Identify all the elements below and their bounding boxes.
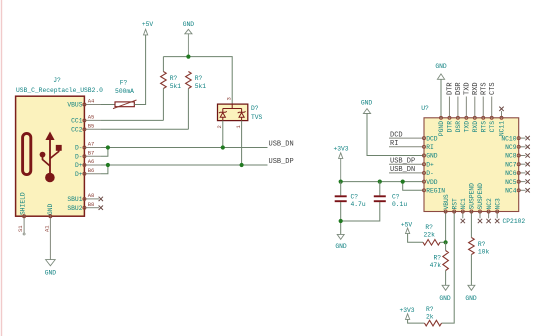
- svg-text:4.7u: 4.7u: [351, 201, 366, 208]
- capacitor C? 4.7u: [340, 182, 342, 196]
- svg-text:S1: S1: [17, 225, 24, 232]
- svg-text:U?: U?: [421, 105, 429, 112]
- pin NC9 (right): [519, 146, 526, 148]
- svg-text:+5V: +5V: [401, 221, 413, 228]
- pin A4 VBUS: [84, 104, 101, 106]
- pin B5 CC2: [84, 128, 101, 130]
- junction D+ B6: [106, 163, 110, 167]
- svg-text:GND: GND: [426, 153, 438, 160]
- svg-text:SBU2: SBU2: [67, 205, 82, 212]
- svg-text:D-: D-: [426, 170, 434, 177]
- svg-text:NC8: NC8: [505, 153, 517, 160]
- svg-text:R?: R?: [425, 224, 433, 231]
- power symbol GND (above U?): [437, 74, 444, 79]
- svg-text:GND: GND: [47, 203, 54, 215]
- svg-text:NC10: NC10: [501, 135, 516, 142]
- resistor R? 47k: [445, 242, 447, 250]
- power symbol +5V (bottom): [406, 228, 410, 234]
- svg-text:10k: 10k: [478, 249, 490, 256]
- power symbol +3V3 (bottom): [406, 314, 410, 320]
- svg-text:A5: A5: [88, 114, 95, 121]
- USB-C plug icon: [23, 133, 31, 174]
- svg-text:SUSPEND: SUSPEND: [477, 183, 484, 210]
- junction VDD +3V3/C1: [339, 180, 343, 184]
- junction caps GND: [339, 219, 343, 223]
- pin B8 SBU2: [84, 207, 99, 209]
- pin NC8 (right): [519, 155, 526, 157]
- pin D+ (left): [389, 163, 424, 165]
- svg-text:VBUS: VBUS: [67, 102, 82, 109]
- svg-text:CTS: CTS: [489, 82, 497, 95]
- svg-text:R?: R?: [478, 241, 486, 248]
- wire D- net: [101, 147, 268, 149]
- svg-text:DSR: DSR: [455, 82, 463, 95]
- svg-text:RI: RI: [390, 140, 398, 148]
- svg-text:R?: R?: [426, 306, 434, 313]
- capacitor C? 0.1u: [379, 182, 381, 196]
- ground symbol under connector: [46, 260, 56, 266]
- wire CC2: [101, 128, 188, 130]
- wire VDD rail: [341, 181, 424, 183]
- svg-text:NC5: NC5: [505, 179, 517, 186]
- svg-text:SUSPEND: SUSPEND: [469, 183, 476, 210]
- svg-text:R?: R?: [195, 75, 203, 82]
- svg-text:5k1: 5k1: [195, 83, 207, 90]
- pin NC1 (bottom): [462, 212, 464, 219]
- wire RST down: [442, 212, 455, 324]
- svg-text:GND: GND: [435, 63, 447, 70]
- resistor R? 5k1 (CC1): [162, 57, 164, 72]
- svg-text:C?: C?: [392, 194, 400, 201]
- pin B6 D+: [84, 173, 101, 175]
- svg-text:DCD: DCD: [390, 131, 403, 139]
- svg-text:GND: GND: [361, 100, 373, 107]
- svg-text:SHIELD: SHIELD: [20, 192, 27, 215]
- svg-text:B5: B5: [88, 123, 95, 130]
- USB trident icon: [40, 132, 62, 183]
- pin A5 CC1: [84, 119, 101, 121]
- wire B7 join: [101, 148, 108, 157]
- junction VDD REGIN: [401, 180, 405, 184]
- svg-text:TXD: TXD: [464, 82, 472, 95]
- pin CTS (top): [491, 97, 493, 118]
- svg-text:A8: A8: [88, 192, 95, 199]
- svg-text:REGIN: REGIN: [426, 188, 445, 195]
- junction D- TVS: [221, 145, 225, 149]
- wire GND to PGND pin: [440, 79, 442, 118]
- junction D+ TVS: [240, 163, 244, 167]
- svg-text:NC4: NC4: [505, 188, 517, 195]
- ground symbol under 47k: [442, 285, 449, 290]
- svg-text:R?: R?: [170, 75, 178, 82]
- svg-text:CC1: CC1: [71, 118, 83, 125]
- pin A7 D-: [84, 147, 101, 149]
- wire SUSPEND down: [470, 212, 472, 238]
- pin DTR (top): [448, 97, 450, 118]
- no-connect X NC11: [499, 107, 503, 111]
- svg-text:VDD: VDD: [426, 179, 438, 186]
- pin NC11 (top): [501, 111, 503, 118]
- no-connect X on SBU1: [99, 197, 103, 201]
- wire GND pin (left): [367, 114, 424, 156]
- svg-text:D-: D-: [75, 145, 83, 152]
- svg-text:RST: RST: [451, 198, 458, 210]
- svg-text:USB_DN: USB_DN: [269, 141, 294, 149]
- power symbol GND (top rail): [185, 29, 192, 34]
- pin B7 D-: [84, 155, 101, 157]
- svg-text:D+: D+: [426, 161, 434, 168]
- pin RTS (top): [482, 97, 484, 118]
- svg-text:J?: J?: [53, 77, 61, 84]
- pin DSR (top): [457, 97, 459, 118]
- svg-text:VBUS: VBUS: [443, 194, 450, 209]
- svg-text:NC7: NC7: [505, 161, 517, 168]
- svg-text:RXD: RXD: [472, 82, 480, 95]
- svg-text:D+: D+: [75, 162, 83, 169]
- pin RXD (top): [474, 97, 476, 118]
- svg-text:+3V3: +3V3: [399, 307, 414, 314]
- pin D- (left): [389, 172, 424, 174]
- svg-text:TVS: TVS: [251, 114, 263, 121]
- pin NC5 (right): [519, 181, 526, 183]
- svg-text:D-: D-: [75, 153, 83, 160]
- svg-text:DTR: DTR: [447, 121, 454, 133]
- svg-text:RI: RI: [426, 144, 434, 151]
- svg-text:DTR: DTR: [447, 82, 455, 95]
- svg-text:TXD: TXD: [464, 121, 471, 133]
- svg-text:RTS: RTS: [480, 121, 487, 133]
- svg-text:CP2102: CP2102: [503, 218, 526, 225]
- svg-text:A7: A7: [88, 141, 95, 148]
- svg-text:R?: R?: [433, 255, 441, 262]
- junction D- B7: [106, 145, 110, 149]
- svg-text:+5V: +5V: [142, 21, 154, 28]
- junction GND rail: [186, 55, 190, 59]
- svg-text:F?: F?: [120, 80, 128, 87]
- svg-text:A4: A4: [88, 98, 95, 105]
- pin NC6 (right): [519, 172, 526, 174]
- wire +5V to R 22k: [408, 234, 423, 243]
- pin A8 SBU1: [84, 198, 99, 200]
- svg-text:NC11: NC11: [499, 121, 506, 136]
- pin NC2 (bottom): [488, 212, 490, 219]
- svg-text:USB_DP: USB_DP: [390, 157, 415, 165]
- pin A1 GND stub + wire: [49, 216, 51, 259]
- wire fuse to +5V: [134, 35, 145, 105]
- svg-text:NC2: NC2: [486, 198, 493, 210]
- svg-text:GND: GND: [465, 295, 477, 302]
- power symbol GND (left of U?): [363, 109, 370, 114]
- wire VBUS pin to fuse: [101, 104, 115, 106]
- resistor R? 10k: [469, 238, 475, 255]
- ground symbol under caps: [337, 234, 344, 239]
- no-connect X on SBU2: [99, 206, 103, 210]
- pin TXD (top): [465, 97, 467, 118]
- junction VBUS divider: [444, 240, 448, 244]
- fuse F?: [115, 102, 134, 107]
- pin NC3 (bottom): [496, 212, 498, 219]
- wire REGIN: [403, 182, 424, 191]
- svg-text:USB_DP: USB_DP: [269, 158, 294, 166]
- svg-text:C?: C?: [351, 194, 359, 201]
- wire B6 join: [101, 165, 108, 174]
- svg-text:CC2: CC2: [71, 127, 83, 134]
- svg-text:DCD: DCD: [426, 135, 438, 142]
- svg-text:NC3: NC3: [494, 198, 501, 210]
- svg-text:47k: 47k: [430, 262, 442, 269]
- pin S1 SHIELD stub: [23, 216, 25, 233]
- svg-text:USB_DN: USB_DN: [390, 166, 415, 174]
- svg-text:2: 2: [216, 125, 223, 128]
- svg-text:NC1: NC1: [460, 198, 467, 210]
- pin A6 D+: [84, 164, 101, 166]
- pin DCD (left): [389, 137, 424, 139]
- wire D+ net: [101, 164, 268, 166]
- resistor R? 22k: [423, 240, 440, 246]
- pin NC7 (right): [519, 163, 526, 165]
- svg-text:3: 3: [226, 97, 233, 100]
- svg-text:RTS: RTS: [480, 82, 488, 95]
- svg-text:DSR: DSR: [455, 121, 462, 133]
- TVS pin to D- wire: [222, 121, 224, 148]
- svg-text:B8: B8: [88, 201, 95, 208]
- ground symbol under 10k: [468, 285, 475, 290]
- resistor R? 2k: [425, 320, 442, 326]
- resistor R? 5k1 (CC2): [186, 72, 192, 89]
- svg-text:GND: GND: [45, 270, 57, 277]
- pin NC4 (right): [519, 189, 526, 191]
- junction VDD C2: [378, 180, 382, 184]
- svg-text:CTS: CTS: [489, 121, 496, 133]
- svg-text:SBU1: SBU1: [67, 196, 82, 203]
- svg-text:GND: GND: [439, 295, 451, 302]
- svg-text:D+: D+: [75, 171, 83, 178]
- svg-text:B6: B6: [88, 167, 95, 174]
- TVS pin to D+ wire: [241, 121, 243, 165]
- svg-text:PGND: PGND: [438, 121, 445, 136]
- power symbol +5V (top): [144, 29, 148, 35]
- svg-text:B7: B7: [88, 149, 95, 156]
- svg-text:5k1: 5k1: [170, 83, 182, 90]
- pin NC10 (right): [519, 137, 526, 139]
- TVS diode D? body: [218, 104, 248, 121]
- svg-text:22k: 22k: [424, 232, 436, 239]
- svg-text:NC6: NC6: [505, 170, 517, 177]
- svg-text:NC9: NC9: [505, 144, 517, 151]
- IC U? CP2102 body: [424, 118, 519, 212]
- wire VBUS pin down: [445, 212, 447, 243]
- svg-text:USB_C_Receptacle_USB2.0: USB_C_Receptacle_USB2.0: [16, 87, 103, 94]
- wire +3V3 to R 2k: [408, 319, 425, 323]
- svg-text:0.1u: 0.1u: [392, 201, 407, 208]
- wire CC1: [101, 119, 163, 121]
- svg-text:D?: D?: [251, 105, 259, 112]
- svg-text:GND: GND: [335, 243, 347, 250]
- svg-text:500mA: 500mA: [115, 88, 134, 95]
- connector J? body: [16, 96, 85, 216]
- svg-text:2k: 2k: [426, 314, 434, 321]
- svg-text:A6: A6: [88, 158, 95, 165]
- TVS internal diodes: [219, 104, 246, 121]
- pin SUSPEND2 (bottom): [479, 212, 481, 219]
- svg-text:GND: GND: [183, 21, 195, 28]
- svg-text:RXD: RXD: [472, 121, 479, 133]
- svg-text:A1: A1: [44, 225, 51, 232]
- svg-text:+3V3: +3V3: [333, 145, 348, 152]
- power symbol +3V3 (VDD rail): [339, 153, 343, 159]
- wire GND rail: [163, 57, 232, 105]
- pin RI (left): [389, 146, 424, 148]
